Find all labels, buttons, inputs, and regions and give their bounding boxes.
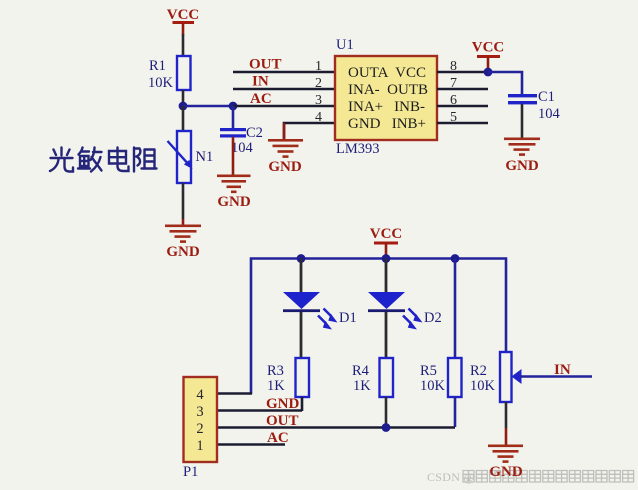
svg-text:104: 104 (231, 140, 254, 156)
wire R5 to OUT net (454, 397, 457, 427)
wire N1 to ground (182, 183, 185, 225)
connector P1 (184, 377, 218, 462)
wire P1 pin 4 to rail (217, 392, 252, 395)
svg-text:LM393: LM393 (336, 141, 380, 157)
wire GND net (P1 pin 3) (217, 409, 302, 412)
power VCC (bottom) (370, 226, 403, 258)
wire IN net to U1 pin 2 (233, 88, 336, 91)
wire C2 to ground (232, 137, 235, 175)
wire VCC to R1 (182, 34, 185, 57)
svg-text:1: 1 (315, 59, 322, 74)
svg-text:GND: GND (217, 194, 251, 210)
svg-text:3: 3 (196, 404, 203, 420)
op-amp U1 body (335, 56, 437, 140)
svg-text:VCC: VCC (472, 40, 505, 56)
wire junction to C1 (488, 72, 522, 95)
svg-text:AC: AC (267, 430, 289, 446)
svg-text:OUT: OUT (249, 57, 282, 73)
svg-text:GND: GND (489, 464, 523, 480)
wire U1 pin 6 stub (437, 105, 488, 108)
junction R5 column (451, 254, 460, 263)
svg-text:INB-: INB- (394, 99, 425, 115)
potentiometer R2 (500, 352, 522, 402)
photoresistor N1 (168, 131, 193, 183)
ground (N1) (165, 225, 201, 261)
label R1 value 10K (148, 58, 174, 91)
svg-text:1: 1 (196, 438, 203, 454)
wire AC net: node B to U1 pin 3 (233, 105, 336, 108)
svg-text:C2: C2 (246, 125, 263, 141)
label R3 value 1K (267, 363, 285, 394)
svg-text:INA-: INA- (348, 82, 380, 98)
svg-text:4: 4 (196, 387, 204, 403)
svg-text:8: 8 (450, 59, 457, 74)
ground (C1) (504, 138, 540, 175)
text 光敏电阻 (photoresistor) (50, 148, 157, 172)
svg-text:GND: GND (268, 159, 302, 175)
svg-text:10K: 10K (470, 378, 496, 394)
glyph 敏 (78, 148, 102, 172)
node A junction (179, 102, 188, 111)
ground (U1 pin 4) (268, 123, 303, 175)
wire U1 pin 8 (437, 71, 488, 74)
svg-text:5: 5 (450, 110, 457, 125)
svg-text:3: 3 (315, 93, 322, 108)
LED D1 (283, 292, 338, 330)
svg-text:6: 6 (450, 93, 457, 108)
svg-text:D1: D1 (339, 310, 357, 326)
label R4 value 1K (352, 363, 371, 394)
svg-text:INB+: INB+ (392, 116, 426, 132)
wire R1 to node A (182, 90, 185, 106)
wire AC net (P1 pin 1) (217, 443, 285, 446)
svg-text:VCC: VCC (167, 7, 200, 23)
svg-text:R4: R4 (352, 363, 370, 379)
power VCC (right) (472, 40, 505, 73)
resistor R4 (380, 358, 394, 397)
label R2 value 10K (470, 363, 496, 394)
glyph 电 (109, 148, 129, 172)
wire U1 pin 7 stub (437, 88, 488, 91)
wire node A to N1 (182, 106, 185, 132)
label C1 value 104 (538, 89, 561, 122)
wire rail to D1 (300, 259, 303, 294)
svg-text:10K: 10K (148, 75, 174, 91)
svg-text:D2: D2 (424, 310, 442, 326)
svg-text:INA+: INA+ (348, 99, 383, 115)
svg-text:2: 2 (315, 76, 322, 91)
wire IN net to R2 wiper (520, 375, 592, 378)
svg-text:OUTB: OUTB (387, 82, 428, 98)
wire rail to D2 (385, 259, 388, 294)
wire D1 to R3 (300, 312, 303, 359)
power VCC (top left) (167, 7, 200, 35)
svg-text:R2: R2 (470, 363, 487, 379)
wire C1 to ground (521, 104, 524, 138)
ground (C2) (217, 175, 251, 211)
svg-text:R3: R3 (267, 363, 284, 379)
junction D2/VCC column (382, 254, 391, 263)
wire node B to C2 (232, 106, 235, 129)
wire R4 to OUT net (385, 397, 388, 427)
svg-text:OUTA: OUTA (348, 65, 389, 81)
wire node A to node B (183, 105, 233, 108)
svg-text:GND: GND (266, 396, 300, 412)
node B junction (229, 102, 238, 111)
node pin8/VCC junction (484, 68, 493, 77)
resistor R1 (177, 56, 191, 90)
svg-text:10K: 10K (420, 378, 446, 394)
svg-text:VCC: VCC (395, 65, 426, 81)
LED D2 (368, 292, 423, 330)
svg-text:GND: GND (348, 116, 381, 132)
svg-text:104: 104 (538, 106, 561, 122)
svg-text:2: 2 (196, 421, 203, 437)
wire U1 pin 4 to ground (284, 123, 336, 139)
ground (R2) (488, 445, 523, 481)
svg-text:1K: 1K (353, 378, 371, 394)
svg-text:IN: IN (554, 362, 571, 378)
svg-text:C1: C1 (538, 89, 555, 105)
capacitor C2 (220, 128, 246, 138)
wire OUT net to U1 pin 1 (233, 71, 336, 74)
svg-text:R1: R1 (149, 58, 166, 74)
glyph 光 (50, 148, 73, 172)
svg-text:1K: 1K (267, 378, 285, 394)
junction R4/OUT (382, 423, 391, 432)
junction D1 column (297, 254, 306, 263)
svg-text:P1: P1 (183, 464, 198, 480)
svg-text:AC: AC (250, 91, 272, 107)
svg-text:IN: IN (252, 74, 269, 90)
wire U1 pin 5 stub (437, 122, 488, 125)
label R5 value 10K (420, 363, 446, 394)
label C2 value 104 (231, 125, 263, 156)
wire D2 to R4 (385, 312, 388, 359)
svg-text:GND: GND (505, 158, 539, 174)
svg-text:7: 7 (450, 76, 457, 91)
watermark CSDN (427, 470, 634, 484)
svg-text:N1: N1 (196, 149, 214, 165)
capacitor C1 (508, 94, 537, 104)
resistor R3 (296, 358, 310, 397)
resistor R5 (448, 358, 462, 397)
wire R2 to ground (505, 402, 508, 445)
wire rail to R5 (454, 259, 457, 360)
svg-text:R5: R5 (420, 363, 437, 379)
wire R3 to GND net (301, 397, 304, 411)
glyph 阻 (134, 148, 157, 172)
wire VCC rail (251, 259, 506, 395)
svg-text:U1: U1 (336, 37, 354, 53)
svg-text:GND: GND (166, 244, 200, 260)
wire OUT net (P1 pin 2) (217, 426, 455, 429)
svg-text:VCC: VCC (370, 226, 403, 242)
svg-text:OUT: OUT (266, 413, 299, 429)
